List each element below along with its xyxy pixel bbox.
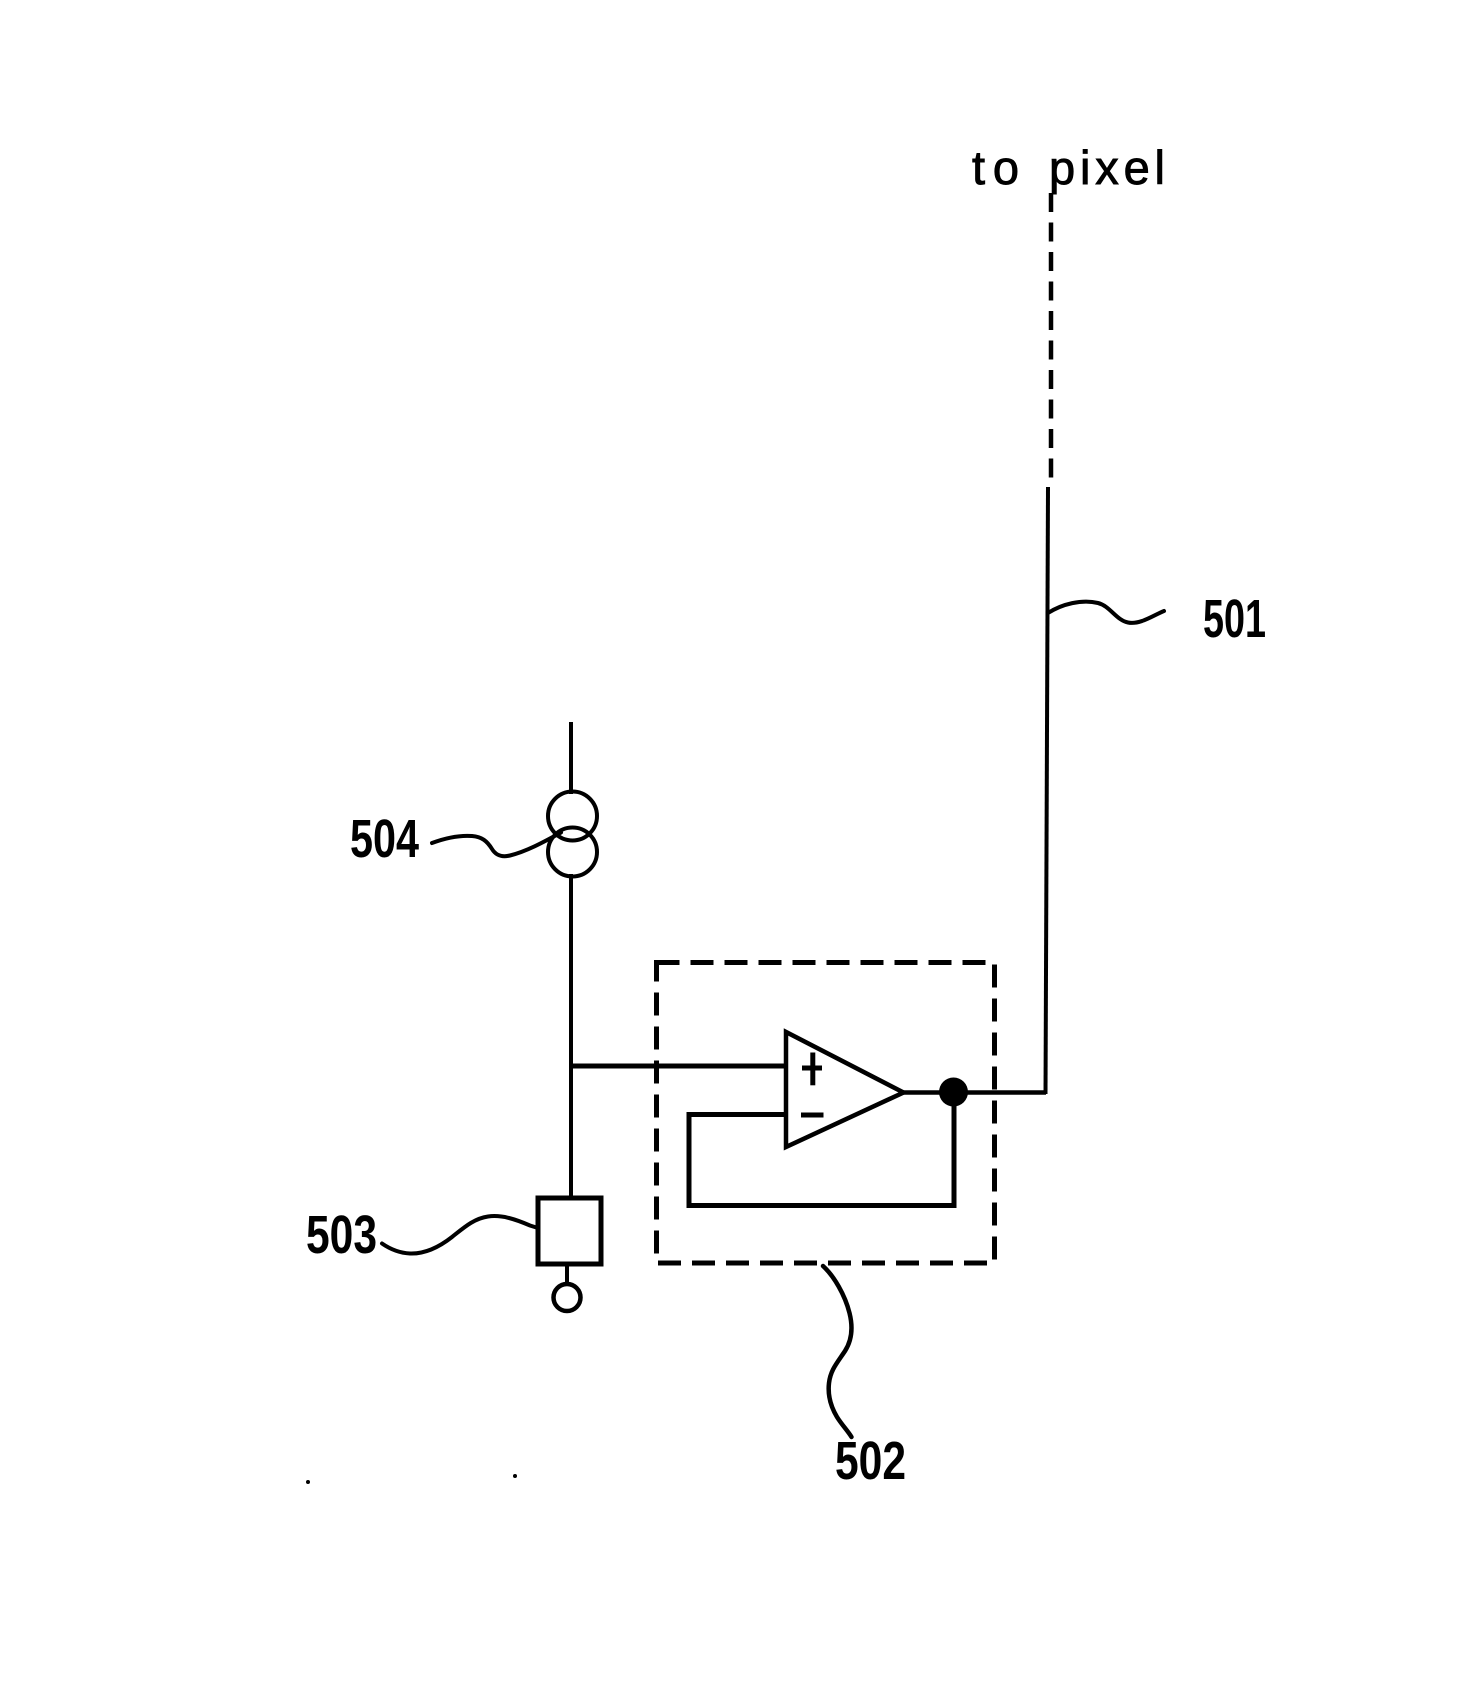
svg-text:503: 503 xyxy=(306,1205,377,1265)
wire: solid data-line 501 vertical segment xyxy=(1046,487,1049,1094)
terminal circle below 503 xyxy=(554,1284,581,1311)
wire: non-inverting input (node to op-amp) xyxy=(569,1064,788,1069)
wire: supply feed into current source xyxy=(569,722,573,794)
op-amp U1 xyxy=(786,1032,904,1147)
label: to pixel xyxy=(972,141,1165,194)
leader line for label 501 xyxy=(1048,602,1164,623)
wire: current source down to switch 503 xyxy=(569,874,573,1200)
speck artifact left xyxy=(306,1480,310,1484)
svg-text:504: 504 xyxy=(350,809,419,869)
svg-text:502: 502 xyxy=(835,1431,906,1491)
switch / terminal box 503 xyxy=(538,1198,601,1264)
output wire: op-amp apex to data line xyxy=(904,1090,1047,1095)
op-amp plus input marking xyxy=(802,1053,822,1086)
buffer block 502 (dashed box) xyxy=(657,963,995,1264)
op-amp minus input marking xyxy=(801,1113,824,1118)
leader line for label 502 xyxy=(823,1266,852,1437)
svg-text:pixel: pixel xyxy=(1049,141,1165,194)
speck artifact right xyxy=(513,1474,517,1478)
leader line for label 503 xyxy=(382,1216,538,1253)
wire: dashed data-line segment going to pixel xyxy=(1049,193,1054,487)
feedback wire: output node back to inverting input xyxy=(689,1093,954,1206)
svg-text:to: to xyxy=(972,141,1019,194)
svg-text:501: 501 xyxy=(1203,589,1266,649)
wire: box 503 to terminal xyxy=(565,1264,569,1285)
current source 504 (two overlapping circles) xyxy=(548,792,597,877)
node: output junction dot xyxy=(939,1078,968,1107)
leader line for label 504 xyxy=(432,833,561,857)
